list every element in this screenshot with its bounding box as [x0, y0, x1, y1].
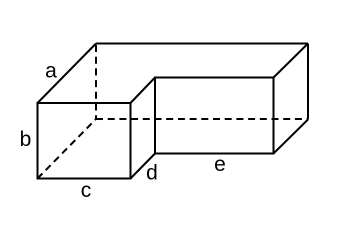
front face of right box (top, right, bottom e, inner vertical) [155, 78, 274, 154]
bottom right depth edge [274, 120, 309, 154]
top notch depth edge [131, 78, 156, 104]
svg-text:d: d [146, 162, 158, 185]
svg-text:e: e [214, 153, 226, 176]
hidden bottom-left depth edge [38, 119, 97, 179]
svg-text:b: b [20, 128, 32, 151]
svg-text:a: a [45, 60, 57, 83]
top right depth edge [274, 44, 309, 78]
bottom notch depth edge d [131, 154, 156, 179]
front face of tall left box (edges b top, right, c) [38, 103, 131, 179]
hidden back-left vertical edge [95, 45, 97, 119]
back top edge [96, 43, 308, 45]
svg-text:c: c [81, 179, 92, 202]
back right vertical edge [307, 44, 309, 120]
hidden back bottom edge [96, 118, 308, 120]
depth edge a (top-left slant) [38, 44, 97, 104]
